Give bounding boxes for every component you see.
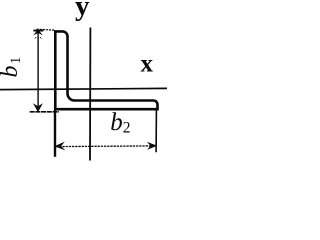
- b2 left extension line: [54, 110, 56, 157]
- b1 top arrowhead: [33, 30, 43, 32]
- x-axis: [0, 88, 167, 89]
- b2 right extension line: [155, 111, 157, 153]
- b1 top extension line: [37, 29, 56, 30]
- b2 dimension line: [56, 145, 154, 148]
- b1 bottom arrowhead: [33, 103, 43, 112]
- y-axis: [89, 28, 91, 161]
- angle profile outline: [55, 31, 157, 109]
- b1 bottom extension line: [30, 111, 59, 113]
- b2 left arrowhead: [54, 142, 65, 151]
- b2 right arrowhead: [147, 142, 157, 150]
- svg-text:x: x: [141, 51, 154, 78]
- b1 dimension line: [37, 33, 39, 107]
- svg-text:y: y: [75, 0, 90, 22]
